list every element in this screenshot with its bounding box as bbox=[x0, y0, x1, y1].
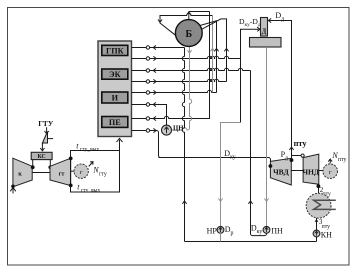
node: ГТ top-right bbox=[69, 157, 73, 161]
generator Г (ПТУ) bbox=[323, 164, 338, 179]
svg-text:Д: Д bbox=[262, 29, 267, 36]
svg-text:гту_вых: гту_вых bbox=[80, 146, 99, 152]
svg-text:ГПК: ГПК bbox=[106, 46, 124, 55]
pump ЦН bbox=[166, 125, 168, 135]
pump НР bbox=[217, 226, 224, 233]
svg-text:пту: пту bbox=[294, 139, 308, 148]
drum Б bbox=[175, 20, 202, 47]
wire: live steam line D_ку to ЧВД bbox=[159, 158, 271, 167]
deaerator tank bbox=[250, 38, 282, 48]
wire: shaft ЧНД-generator bbox=[319, 170, 323, 172]
svg-text:гту_вых: гту_вых bbox=[81, 187, 100, 193]
svg-text:ПН: ПН bbox=[271, 226, 283, 235]
fuel valve and arrow bbox=[46, 127, 48, 132]
wire: shaft ГТ-generator bbox=[71, 170, 74, 172]
wire: shaft ЧВД-ЧНД bbox=[291, 170, 303, 172]
connection stubs on HRSG right wall bbox=[132, 48, 147, 131]
svg-text:КН: КН bbox=[321, 230, 332, 239]
wire: row5 И outlet risers bbox=[150, 90, 217, 92]
wire: line B riser return to drum left bbox=[160, 13, 213, 35]
arrow N_пту bbox=[328, 159, 332, 163]
turbine ЧНД bbox=[303, 154, 319, 184]
wire: row1 ГПК condensate inlet bbox=[150, 47, 185, 49]
node: КС left bbox=[31, 165, 35, 169]
wire: condenser drain bbox=[316, 218, 318, 230]
section И bbox=[102, 92, 128, 103]
wire: ПН discharge to ЭК bbox=[251, 71, 267, 236]
node: ГТ bottom-right bbox=[69, 184, 73, 188]
svg-text:пту: пту bbox=[338, 157, 347, 163]
wire: grey riser И to line B bbox=[212, 16, 214, 93]
wire: tank drain to ПН bbox=[266, 47, 268, 226]
svg-text:г: г bbox=[329, 169, 332, 176]
node: КС right bbox=[48, 165, 52, 169]
wire: row7 ПЕ steam inlet from drum bbox=[150, 12, 210, 119]
wire: ЧВД to ЧНД crossover bbox=[292, 155, 301, 157]
svg-text:КС: КС bbox=[37, 154, 45, 160]
turbine ЧВД bbox=[270, 158, 291, 185]
node: P_д point bbox=[290, 158, 294, 162]
svg-text:ГТУ: ГТУ bbox=[38, 119, 54, 128]
HRSG casing bbox=[98, 41, 132, 137]
svg-text:НР: НР bbox=[207, 226, 218, 235]
deaerator column Д bbox=[261, 18, 268, 37]
svg-text:Б: Б bbox=[185, 29, 192, 40]
wire: row3 ЭК inlet from feed pump bbox=[150, 68, 251, 70]
node circles bbox=[146, 46, 149, 132]
svg-text:И: И bbox=[112, 94, 119, 103]
wire: riser ЭК to drum right bbox=[202, 19, 227, 82]
wire: ЧНД exhaust to condenser bbox=[318, 184, 320, 193]
wire: drum top stub bbox=[188, 12, 190, 20]
wire: shaft К-ГТ bbox=[32, 172, 50, 174]
svg-text:ЭК: ЭК bbox=[109, 70, 121, 79]
wire: row2 ГПК outlet to deaerator feed bbox=[150, 56, 241, 58]
combustion chamber КС bbox=[31, 152, 52, 159]
svg-text:гт: гт bbox=[59, 170, 65, 177]
generator Г (ГТУ) bbox=[74, 164, 88, 178]
wire: branch to recirculation pump НР bbox=[221, 123, 241, 227]
wire: КС legs bbox=[32, 160, 34, 168]
wire: condensate riser to ГПК bbox=[182, 48, 184, 242]
svg-text:г: г bbox=[80, 169, 83, 176]
gas turbine ГТ bbox=[50, 158, 71, 185]
wire: row6 И inlet from ЦН bbox=[150, 105, 167, 126]
svg-text:гту: гту bbox=[99, 172, 107, 178]
condenser bbox=[306, 193, 331, 218]
flow arrows on rows bbox=[153, 45, 156, 132]
wire: D_д extraction to deaerator bbox=[269, 21, 291, 161]
pump КН bbox=[313, 230, 320, 237]
svg-text:к: к bbox=[18, 170, 22, 177]
exhaust duct box bbox=[71, 151, 120, 193]
wire: line A steam to ПЕ bbox=[189, 11, 210, 13]
wire: drum downcomer to ЦН bbox=[172, 46, 192, 130]
wire: riser И to drum right bbox=[200, 21, 216, 93]
air inlet arrow bbox=[10, 187, 16, 194]
section ПЕ bbox=[102, 117, 128, 128]
wire: deaerator feed line bbox=[241, 29, 259, 122]
section ЭК bbox=[102, 69, 128, 79]
node: ЧВД inlet bbox=[269, 164, 273, 168]
compressor К bbox=[13, 158, 32, 187]
arrow N_гту bbox=[89, 162, 93, 167]
pump ПН bbox=[263, 226, 270, 233]
svg-text:ЧНД: ЧНД bbox=[302, 167, 319, 176]
node: point 2пту bbox=[317, 184, 321, 188]
wire: row4 ЭК outlet riser to drum bbox=[150, 79, 227, 81]
section ГПК bbox=[102, 45, 128, 55]
wire: row8 ПЕ outlet down to live-steam line bbox=[150, 131, 161, 158]
wire: bottom condensate line bbox=[185, 241, 317, 243]
svg-text:ЧВД: ЧВД bbox=[273, 167, 289, 176]
svg-text:ПЕ: ПЕ bbox=[109, 118, 121, 127]
svg-text:пту: пту bbox=[322, 224, 331, 230]
wire: flue gas to HRSG bbox=[117, 138, 123, 150]
